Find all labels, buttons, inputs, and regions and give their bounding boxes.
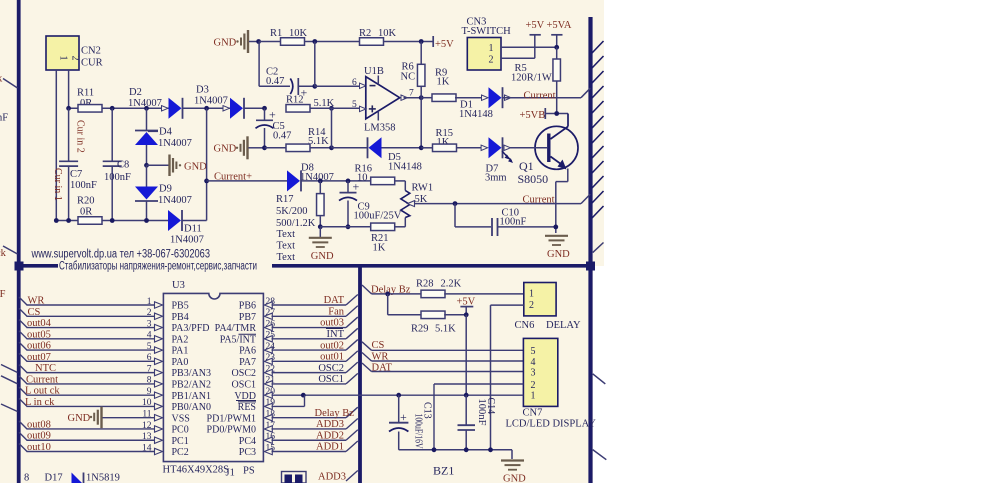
svg-text:PA0: PA0 — [172, 357, 189, 368]
svg-text:1N4007: 1N4007 — [194, 96, 228, 107]
svg-text:5.1K: 5.1K — [308, 136, 329, 147]
svg-text:PB3/AN3: PB3/AN3 — [172, 368, 211, 379]
svg-text:7: 7 — [409, 88, 414, 98]
node R29 +5V — [464, 312, 469, 317]
IC U3 pin numbers right — [266, 297, 276, 454]
svg-text:Q1: Q1 — [519, 159, 534, 173]
node R11 left — [66, 106, 71, 111]
IC U3 pin names — [172, 301, 257, 459]
svg-text:100uF/16V: 100uF/16V — [413, 414, 424, 450]
capacitor C9 100uF/25V — [347, 181, 349, 192]
svg-text:L out ck: L out ck — [25, 386, 60, 397]
left edge diagonal wires — [1, 365, 18, 373]
connector CN7 LCD/LED DISPLAY — [523, 338, 557, 406]
svg-text:D17: D17 — [45, 473, 63, 483]
op-amp U1B LM358 — [366, 77, 400, 119]
svg-text:Text: Text — [277, 252, 296, 263]
svg-text:+: + — [269, 107, 276, 121]
svg-text:J1: J1 — [226, 468, 235, 479]
svg-text:1K: 1K — [373, 243, 386, 254]
svg-text:Cur in 2: Cur in 2 — [75, 120, 86, 153]
svg-text:INT: INT — [327, 329, 345, 340]
svg-text:D9: D9 — [159, 184, 172, 195]
svg-text:out02: out02 — [320, 340, 344, 351]
svg-text:GND: GND — [214, 144, 237, 155]
node R14 right — [329, 145, 334, 150]
svg-text:GND: GND — [311, 251, 334, 262]
hatched edge marks top right — [592, 41, 604, 218]
wire WR to CN7 pin4 — [372, 360, 524, 362]
svg-text:1N4007: 1N4007 — [158, 195, 192, 206]
wire CN3 pin1 to +5VA — [501, 46, 557, 48]
node C14 top — [464, 393, 469, 398]
svg-text:out08: out08 — [27, 419, 51, 430]
svg-text:5: 5 — [352, 100, 357, 110]
node R17 bottom — [318, 224, 323, 229]
node R1 right — [312, 39, 317, 44]
bus entry right lower — [593, 450, 607, 460]
svg-text:Fan: Fan — [328, 306, 345, 317]
svg-text:BZ1: BZ1 — [433, 464, 454, 478]
node rail C14 — [464, 447, 469, 452]
svg-text:out07: out07 — [27, 352, 51, 363]
svg-text:+5V: +5V — [526, 20, 545, 31]
wire Q1 emitter down — [567, 169, 569, 182]
bus horizontal divider — [15, 264, 58, 268]
svg-text:+5V: +5V — [435, 39, 454, 50]
wire CN2 pin2 down — [68, 70, 70, 108]
IC U3 HT46X49X28S body — [163, 293, 263, 461]
power +5V (opamp rail) — [432, 36, 434, 47]
svg-text:nF: nF — [0, 113, 8, 124]
transistor Q1 S8050 — [535, 126, 578, 169]
node D2 anode col — [144, 106, 149, 111]
svg-text:CN7: CN7 — [523, 408, 543, 419]
svg-text:1: 1 — [529, 289, 534, 300]
svg-text:0.47: 0.47 — [273, 131, 291, 142]
svg-text:U3: U3 — [172, 280, 185, 291]
svg-text:5: 5 — [531, 346, 536, 357]
svg-text:5.1K: 5.1K — [435, 324, 456, 335]
svg-text:RW1: RW1 — [412, 183, 434, 194]
diode D9 1N4007 — [146, 165, 148, 186]
node rail CN7pin2 — [432, 447, 437, 452]
svg-text:Cur in 1: Cur in 1 — [52, 168, 63, 201]
svg-text:120R/1W: 120R/1W — [511, 73, 552, 84]
svg-text:PB5: PB5 — [172, 301, 189, 312]
svg-text:ADD1: ADD1 — [316, 442, 344, 453]
svg-text:0R: 0R — [80, 207, 92, 218]
svg-text:PD1/PWM1: PD1/PWM1 — [207, 413, 256, 424]
diode D11 1N4007 — [168, 210, 181, 231]
svg-text:OSC2: OSC2 — [318, 363, 344, 374]
svg-text:2.2K: 2.2K — [441, 279, 462, 290]
svg-text:R29: R29 — [411, 324, 429, 335]
svg-text:100nF: 100nF — [104, 172, 131, 183]
svg-text:Стабилизаторы напряжения-ремон: Стабилизаторы напряжения-ремонт,сервис,з… — [59, 261, 257, 273]
svg-text:PB2/AN2: PB2/AN2 — [172, 379, 211, 390]
node C5 bottom — [262, 145, 267, 150]
svg-text:OSC1: OSC1 — [318, 374, 344, 385]
bus vertical mid (bottom blocks) — [358, 266, 362, 483]
node opamp out — [419, 95, 424, 100]
svg-text:Current: Current — [524, 91, 556, 102]
wire pin5 to R14 vertical — [331, 108, 333, 148]
node C9 top — [346, 179, 351, 184]
wire CN7 pin2 to gnd — [434, 383, 523, 385]
node R15 left — [419, 145, 424, 150]
svg-text:PS: PS — [243, 466, 255, 477]
svg-text:PB4: PB4 — [172, 312, 189, 323]
wire CN6 pin2 to gnd — [491, 304, 524, 306]
node D2-D3 mid — [204, 106, 209, 111]
svg-text:2: 2 — [70, 56, 81, 61]
svg-text:NC: NC — [401, 72, 416, 83]
svg-text:out09: out09 — [27, 431, 51, 442]
svg-text:Delay Bz: Delay Bz — [315, 408, 355, 419]
svg-text:R11: R11 — [77, 88, 94, 99]
node R11 right — [110, 106, 115, 111]
svg-text:PD0/PWM0: PD0/PWM0 — [207, 425, 256, 436]
node +5VA R5 — [554, 45, 559, 50]
svg-text:D3: D3 — [196, 85, 209, 96]
svg-text:PA3/PFD: PA3/PFD — [172, 323, 210, 334]
svg-text:GND: GND — [547, 249, 570, 260]
svg-text:L in ck: L in ck — [25, 397, 55, 408]
svg-text:U1B: U1B — [364, 66, 384, 77]
svg-text:+: + — [400, 410, 407, 424]
capacitor C2 0.47 — [258, 42, 260, 87]
svg-text:8: 8 — [24, 473, 29, 483]
wire right column Current+ — [206, 108, 208, 220]
node bottom D9 — [144, 218, 149, 223]
connector CN2 — [46, 36, 79, 70]
svg-text:ADD3: ADD3 — [316, 419, 344, 430]
svg-text:Text: Text — [277, 229, 296, 240]
svg-text:CS: CS — [28, 307, 41, 318]
node +5V R6 top — [419, 39, 424, 44]
node C2 right — [312, 84, 317, 89]
svg-text:1K: 1K — [437, 77, 450, 88]
node C9 bottom — [346, 224, 351, 229]
svg-text:LCD/LED DISPLAY: LCD/LED DISPLAY — [506, 419, 597, 430]
svg-text:S8050: S8050 — [518, 172, 549, 186]
svg-text:PB6: PB6 — [239, 301, 256, 312]
svg-text:R17: R17 — [276, 194, 294, 205]
svg-text:500/1.2K: 500/1.2K — [276, 218, 316, 229]
svg-text:out10: out10 — [27, 442, 51, 453]
svg-text:out06: out06 — [27, 341, 51, 352]
svg-text:ADD2: ADD2 — [316, 430, 344, 441]
svg-text:3mm: 3mm — [485, 173, 507, 184]
svg-text:AF: AF — [0, 289, 6, 300]
capacitor C13 100uF/16V — [398, 395, 400, 423]
node bottom C7 — [66, 218, 71, 223]
node bottom pin1 — [54, 218, 59, 223]
svg-text:CUR: CUR — [81, 58, 103, 69]
svg-text:www.supervolt.dp.ua тел +38-0: www.supervolt.dp.ua тел +38-067-6302063 — [31, 249, 210, 261]
svg-text:+5VA: +5VA — [547, 20, 572, 31]
svg-text:D11: D11 — [184, 224, 202, 235]
wire +5V down — [465, 315, 467, 395]
U3 right pin wires to bus — [272, 295, 358, 452]
IC U3 right pin chevrons — [264, 302, 272, 455]
svg-text:1: 1 — [489, 43, 494, 54]
wire pin5 net — [310, 107, 359, 109]
bus entry ADD3 bottom — [346, 471, 358, 482]
svg-text:1: 1 — [58, 56, 69, 61]
node D4-D9 mid — [144, 163, 149, 168]
node R28/R29 — [385, 292, 390, 297]
svg-text:PA1: PA1 — [172, 346, 189, 357]
svg-text:LM358: LM358 — [364, 123, 396, 134]
svg-text:GND: GND — [503, 474, 526, 483]
svg-text:PA4/TMR: PA4/TMR — [215, 323, 257, 334]
bus entry right mid — [593, 374, 606, 384]
net labels left of U3 — [25, 296, 60, 454]
svg-text:2: 2 — [529, 300, 534, 311]
svg-text:HT46X49X28S: HT46X49X28S — [163, 465, 230, 476]
svg-text:6: 6 — [352, 78, 357, 88]
svg-text:PB1/AN1: PB1/AN1 — [172, 391, 211, 402]
bus entry Current bottom — [581, 194, 590, 204]
op-amp output pin7 — [401, 95, 408, 100]
connector CN6 DELAY — [524, 283, 556, 316]
svg-text:out01: out01 — [320, 352, 344, 363]
ground bottom right (earth) — [501, 459, 524, 461]
svg-text:DAT: DAT — [324, 295, 345, 306]
bus entry WR — [362, 353, 372, 362]
wire RES pin19 — [272, 405, 305, 407]
node bottom C8 — [110, 218, 115, 223]
svg-text:PA6: PA6 — [239, 346, 256, 357]
svg-text:Current: Current — [26, 374, 58, 385]
svg-text:PC1: PC1 — [172, 436, 189, 447]
wire VDD pin20 long — [272, 394, 467, 396]
svg-text:4: 4 — [531, 357, 536, 368]
bus junction blob left — [15, 262, 24, 271]
svg-text:Current: Current — [523, 195, 555, 206]
ground top (sideways) near R1 — [247, 30, 249, 53]
wire pin6 net — [314, 42, 316, 87]
svg-text:PC0: PC0 — [172, 425, 189, 436]
svg-text:100nF: 100nF — [70, 180, 97, 191]
svg-text:1N4007: 1N4007 — [158, 138, 192, 149]
ground Q1 emitter (earth) — [545, 235, 568, 237]
svg-text:ck: ck — [0, 248, 7, 259]
svg-text:PC4: PC4 — [239, 436, 256, 447]
ground C5/R14 (sideways) — [246, 136, 248, 159]
svg-text:2: 2 — [531, 380, 536, 391]
svg-text:GND: GND — [214, 37, 237, 48]
svg-text:3: 3 — [531, 367, 536, 378]
bus junction blob right — [586, 262, 595, 271]
wire opamp out down to R15 — [420, 98, 422, 148]
svg-text:ADD3: ADD3 — [318, 472, 346, 483]
node C10 right — [553, 225, 558, 230]
wire CN3 pin2 to +5V — [501, 57, 535, 59]
svg-text:CN2: CN2 — [81, 46, 101, 57]
node R12 left C5 — [262, 106, 267, 111]
svg-text:OSC2: OSC2 — [232, 368, 256, 379]
svg-text:PA2: PA2 — [172, 334, 189, 345]
svg-text:OSC1: OSC1 — [232, 379, 256, 390]
svg-text:PC2: PC2 — [172, 447, 189, 458]
node Current+ tap — [204, 179, 209, 184]
svg-text:100uF/25V: 100uF/25V — [354, 211, 402, 222]
svg-text:out04: out04 — [27, 318, 52, 329]
svg-text:C8: C8 — [117, 160, 129, 171]
wire CN7 pin1 +5V — [466, 394, 523, 396]
node R1 left — [256, 39, 261, 44]
net labels right of U3 — [315, 295, 355, 453]
svg-text:1N5819: 1N5819 — [86, 473, 120, 483]
capacitor C7 100nF — [68, 108, 70, 161]
svg-text:WR: WR — [28, 296, 45, 307]
svg-text:RES: RES — [238, 402, 256, 413]
RW1 wiper arrow — [408, 201, 415, 207]
svg-text:+: + — [353, 180, 360, 194]
svg-text:0.47: 0.47 — [266, 76, 284, 87]
svg-text:R20: R20 — [77, 196, 95, 207]
svg-text:1N4148: 1N4148 — [388, 162, 422, 173]
svg-text:5K/200: 5K/200 — [276, 206, 308, 217]
svg-text:out05: out05 — [27, 329, 51, 340]
svg-text:NTC: NTC — [35, 363, 56, 374]
svg-text:VSS: VSS — [172, 413, 190, 424]
diode D4 1N4007 — [146, 108, 148, 130]
svg-text:C7: C7 — [70, 169, 82, 180]
ground R17 (earth) — [319, 227, 321, 237]
bus entry CS — [362, 342, 372, 351]
wire CS to CN7 pin5 — [372, 349, 524, 351]
bus left vertical — [17, 0, 21, 483]
svg-text:out03: out03 — [320, 318, 344, 329]
node wiper C10 — [453, 201, 458, 206]
wire Current+ row — [207, 180, 287, 182]
svg-text:GND: GND — [184, 161, 207, 172]
ground VSS pin11 (sideways) — [100, 407, 102, 429]
IC U3 left pin wires with bus entries — [19, 297, 163, 455]
bus entry DAT — [362, 363, 372, 372]
svg-text:D4: D4 — [159, 127, 173, 138]
wire top rail y108 — [69, 107, 169, 109]
node R12 right — [329, 106, 334, 111]
svg-text:PA5/INT: PA5/INT — [220, 334, 256, 345]
svg-text:2: 2 — [489, 55, 494, 66]
node +5VB — [554, 111, 559, 116]
svg-text:GND: GND — [68, 413, 91, 424]
svg-text:1: 1 — [531, 391, 536, 402]
svg-text:T-SWITCH: T-SWITCH — [462, 26, 512, 37]
svg-text:R28: R28 — [416, 279, 434, 290]
capacitor C5 0.47 — [264, 108, 266, 120]
wire CN2 pin1 down — [55, 70, 57, 221]
svg-text:CS: CS — [372, 340, 385, 351]
wire bottom rail y220.5 — [56, 220, 168, 222]
node rail CN6pin2 — [488, 447, 493, 452]
node pin19 tie — [301, 393, 306, 398]
svg-text:DELAY: DELAY — [546, 320, 581, 331]
svg-text:100nF: 100nF — [476, 399, 487, 426]
node R17 top — [318, 179, 323, 184]
diode D5 1N4148 — [332, 147, 368, 149]
svg-text:CN6: CN6 — [515, 320, 535, 331]
wire DAT to CN7 pin3 — [372, 371, 524, 373]
bus entry right upper — [593, 243, 604, 253]
svg-text:Text: Text — [277, 241, 296, 252]
svg-text:1N4148: 1N4148 — [459, 109, 493, 120]
svg-text:PB0/AN0: PB0/AN0 — [172, 402, 211, 413]
bus entry Delay Bz — [362, 285, 372, 294]
svg-text:D2: D2 — [129, 87, 142, 98]
ground mid (power gnd sideways) — [147, 164, 169, 166]
svg-text:100nF: 100nF — [500, 217, 527, 228]
node C13 top — [396, 393, 401, 398]
svg-text:PC3: PC3 — [239, 447, 256, 458]
svg-text:PA7: PA7 — [239, 357, 256, 368]
component cut at bottom edge — [282, 472, 307, 483]
bus entry Current top — [581, 88, 590, 98]
svg-text:1N4007: 1N4007 — [170, 235, 204, 246]
capacitor C8 100nF — [111, 108, 113, 161]
capacitor C14 100nF — [465, 395, 467, 425]
svg-text:+5VB: +5VB — [520, 110, 546, 121]
wire gnd rail bottom — [399, 449, 512, 451]
svg-text:PB7: PB7 — [239, 312, 256, 323]
bus right vertical — [588, 17, 592, 483]
IC U3 pin numbers left — [142, 297, 152, 454]
